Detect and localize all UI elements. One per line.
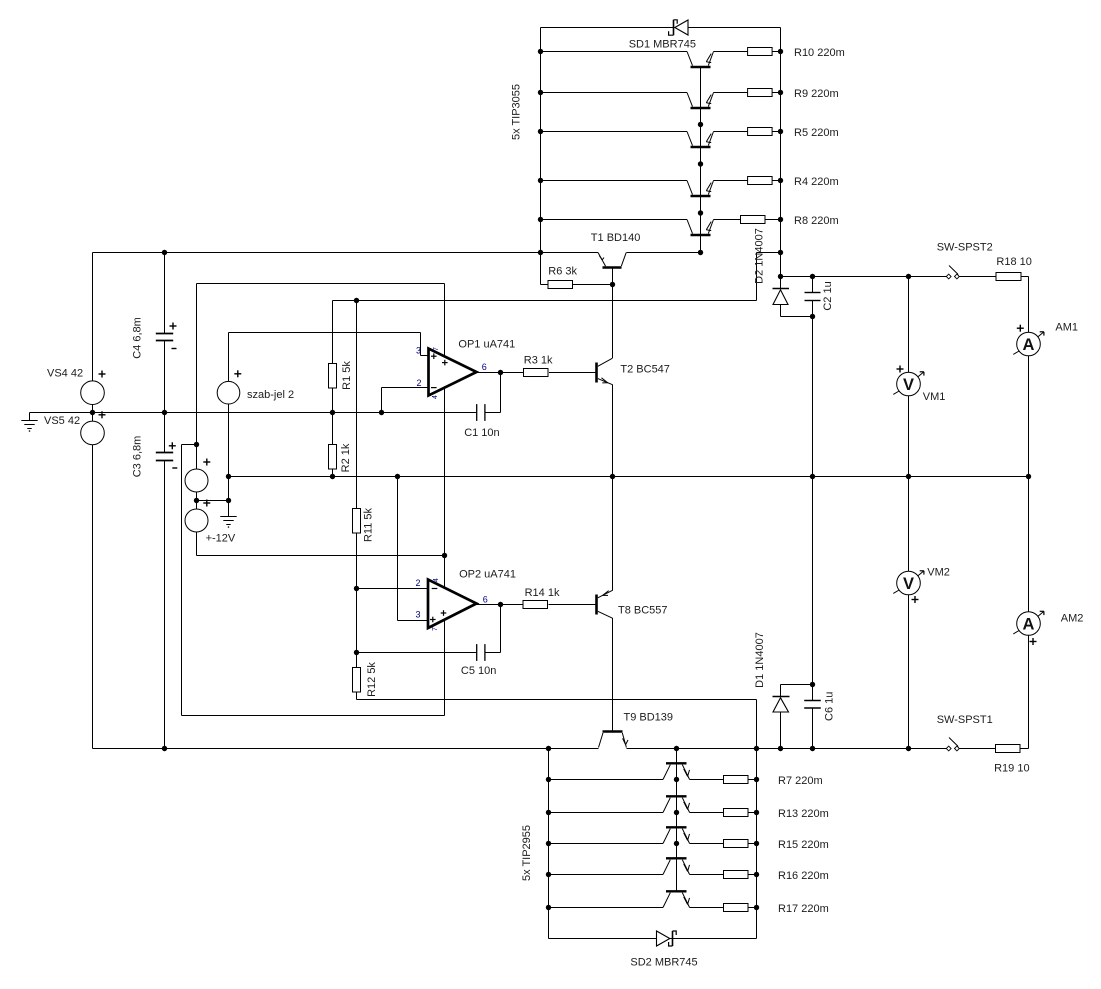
svg-text:2: 2 (415, 578, 420, 588)
junction: 2955 base chain / bottom rail (674, 746, 679, 751)
svg-text:C4 6,8m: C4 6,8m (132, 317, 144, 359)
junction: row3 right (778, 129, 783, 134)
junction: row3 left (538, 129, 543, 134)
wire: bottom rail (93, 748, 949, 750)
svg-text:V: V (903, 575, 914, 593)
junction: OP1 output (498, 370, 503, 375)
junction: 2955 base chain r1 (674, 777, 679, 782)
junction: base chain 2-3 (698, 161, 703, 166)
wire: D2 branch (781, 277, 813, 317)
voltage source szab-jel 2 (217, 370, 294, 404)
svg-text:VM2: VM2 (927, 567, 950, 579)
wire: +-12V midpoint to ground (197, 492, 229, 517)
svg-text:A: A (1023, 615, 1035, 633)
wire: OP2 pin2 wire (357, 588, 429, 590)
svg-text:C3 6,8m: C3 6,8m (132, 436, 144, 478)
svg-text:C2 1u: C2 1u (822, 281, 834, 310)
junction: row1 left (546, 777, 551, 782)
svg-text:szab-jel 2: szab-jel 2 (247, 389, 294, 401)
svg-text:4: 4 (432, 395, 439, 399)
junction: row2 left (546, 810, 551, 815)
junction: 2955 base chain r3 (674, 841, 679, 846)
wire: R1 feedback line A to D2 node (333, 253, 781, 364)
wire: R11/R12 column (356, 301, 358, 700)
transistor TIP2955 #2 (549, 796, 724, 812)
transistor TIP2955 #3 (549, 827, 724, 843)
junction: C5 tap (354, 650, 359, 655)
ground (input common) (21, 421, 37, 432)
wire: TIP3055 bank top wire with SD1 (541, 27, 781, 29)
svg-text:T2 BC547: T2 BC547 (620, 363, 670, 375)
junction: row3 left (546, 841, 551, 846)
junction: row5 left (546, 905, 551, 910)
svg-text:3: 3 (415, 610, 420, 620)
svg-text:R16 220m: R16 220m (778, 870, 829, 882)
ammeter AM2 (1013, 611, 1083, 645)
junction: C2 top (810, 274, 815, 279)
transistor TIP3055 #2 (541, 93, 748, 109)
resistor R14 1k (523, 587, 560, 609)
junction: 12V midpoint (194, 498, 199, 503)
resistor R13 220m (724, 808, 829, 820)
voltage source VS4 42 (47, 368, 106, 405)
junction: szab-jel bottom / mid rail (226, 474, 231, 479)
svg-text:AM1: AM1 (1055, 322, 1078, 334)
wire: R19 / SW-SPST1 run (959, 748, 1028, 750)
junction: +12V branch (194, 442, 199, 447)
wire: R1-R2 divider column (332, 388, 334, 477)
svg-text:5x TIP2955: 5x TIP2955 (521, 825, 533, 881)
transistor T1 BD140 (591, 232, 641, 285)
resistor R3 1k (524, 354, 554, 376)
voltage source +-12V (upper) (185, 459, 210, 493)
svg-text:C5 10n: C5 10n (461, 665, 496, 677)
svg-text:VS4 42: VS4 42 (47, 368, 83, 380)
resistor R4 220m (748, 176, 839, 188)
wire: TIP3055 bank right rail (780, 28, 782, 277)
svg-text:R3 1k: R3 1k (524, 354, 553, 366)
junction: -12V rail / pin4s (442, 553, 447, 558)
junction: R1-R2 junction (330, 410, 335, 415)
wire: left supply rail (92, 253, 94, 749)
junction: row4 right (778, 178, 783, 183)
junction: OP2 output (498, 602, 503, 607)
wire: C4/C3 column (164, 253, 166, 749)
capacitor C4 6,8m (132, 317, 177, 359)
svg-text:R1 5k: R1 5k (341, 361, 353, 390)
svg-text:R10 220m: R10 220m (794, 47, 845, 59)
voltmeter VM1 (893, 366, 945, 404)
svg-text:R11 5k: R11 5k (363, 507, 375, 542)
junction: bank left rail / +V wire (538, 250, 543, 255)
junction: row5 right (778, 217, 783, 222)
wire: TIP3055 base chain (700, 68, 702, 253)
junction: C6 bottom / bottom rail (810, 746, 815, 751)
transistor T8 BC557 (597, 590, 668, 618)
switch SW-SPST1 (937, 714, 993, 751)
resistor R9 220m (748, 88, 839, 100)
transistor TIP3055 #3 (541, 132, 748, 148)
wire: T8 collector to T9 base (612, 618, 614, 732)
resistor R18 10 (996, 256, 1032, 280)
wire: VM2 column (908, 477, 910, 749)
svg-text:SW-SPST2: SW-SPST2 (937, 242, 993, 254)
junction: VM2 bottom / bottom rail (906, 746, 911, 751)
resistor R7 220m (724, 775, 823, 787)
junction: row4 left (546, 872, 551, 877)
capacitor C3 6,8m (132, 436, 178, 478)
svg-text:C1 10n: C1 10n (464, 427, 499, 439)
svg-text:VS5 42: VS5 42 (44, 415, 80, 427)
wire: C1 integrator line (333, 373, 501, 413)
svg-text:D1 1N4007: D1 1N4007 (754, 632, 766, 688)
resistor R19 10 (994, 745, 1029, 775)
switch SW-SPST2 (937, 242, 993, 279)
svg-text:SW-SPST1: SW-SPST1 (937, 714, 993, 726)
junction: 2955 right rail / bottom rail (754, 746, 759, 751)
svg-text:R17 220m: R17 220m (778, 903, 829, 915)
junction: R6 / T1 base (610, 282, 615, 287)
junction: TIP3055 base chain / T1 collector (698, 250, 703, 255)
resistor R2 1k (329, 443, 353, 472)
svg-text:SD1 MBR745: SD1 MBR745 (629, 39, 696, 51)
wire: TIP2955 bank right rail (756, 749, 758, 939)
wire: R12 bottom line to bottom rail (357, 700, 757, 749)
label 5x TIP2955 (521, 825, 533, 881)
svg-text:C6 1u: C6 1u (824, 692, 836, 721)
svg-text:2: 2 (416, 378, 421, 388)
junction: line A / R11 (354, 298, 359, 303)
junction: VS4-VS5 junction (90, 410, 95, 415)
svg-text:R2 1k: R2 1k (340, 443, 352, 472)
wire: mid output rail (0V out) (229, 476, 1029, 478)
svg-text:T1 BD140: T1 BD140 (591, 232, 641, 244)
transistor TIP3055 #1 (541, 52, 748, 68)
junction: C4-C3 junction (162, 410, 167, 415)
junction: bank right rail / feedback jog (778, 250, 783, 255)
wire: C6 column from mid rail (781, 477, 813, 749)
transistor TIP2955 #5 (549, 891, 724, 907)
junction: R2 bottom / mid rail (330, 474, 335, 479)
junction: D2 anode node (778, 274, 783, 279)
junction: C4 top / +V wire (162, 250, 167, 255)
transistor TIP3055 #5 (541, 220, 741, 236)
wire: 0V wire from ground via VS junction to C1 (30, 413, 477, 421)
svg-text:AM2: AM2 (1061, 613, 1084, 625)
resistor R5 220m (748, 127, 839, 139)
junction: C2-C6 column / mid rail (810, 474, 815, 479)
junction: AM column / mid rail (1026, 474, 1031, 479)
resistor R16 220m (724, 870, 829, 882)
svg-text:V: V (903, 376, 914, 394)
resistor R6 3k (548, 266, 578, 289)
svg-text:+-12V: +-12V (206, 533, 236, 545)
junction: OP2 pin3 / mid rail (395, 474, 400, 479)
wire: T2 emitter to mid rail to T8 (612, 385, 614, 591)
wire: VM1 column (908, 277, 910, 477)
diode D1 1N4007 (754, 632, 790, 712)
svg-text:R19 10: R19 10 (994, 763, 1029, 775)
diode D2 1N4007 (754, 228, 790, 304)
junction: VM1 top (906, 274, 911, 279)
svg-text:R13 220m: R13 220m (778, 808, 829, 820)
junction: base chain 3-4 (698, 210, 703, 215)
transistor TIP2955 #4 (549, 858, 724, 874)
ground (12V midpoint) (220, 517, 236, 528)
junction: C3 bottom / bottom rail (162, 746, 167, 751)
transistor T2 BC547 (597, 358, 670, 385)
junction: row2 right (754, 810, 759, 815)
svg-text:4: 4 (433, 578, 440, 582)
capacitor C2 1u (805, 281, 835, 310)
junction: VM column / mid rail (906, 474, 911, 479)
resistor R17 220m (724, 903, 829, 915)
wire: OP1 output to T2 base (477, 372, 597, 374)
voltage source +-12V (lower) (185, 500, 236, 545)
junction: midpoint ground tap (226, 498, 231, 503)
svg-text:6: 6 (482, 362, 487, 372)
wire: TIP2955 bank bottom wire with SD2 (549, 938, 757, 940)
junction: C2 bottom / D2 cathode (810, 314, 815, 319)
wire: szab-jel column (228, 333, 230, 501)
junction: row5 left (538, 217, 543, 222)
wire: +12V net (top circle to OP1 pin7 and OP2 pin7) (182, 284, 445, 716)
transistor T9 BD139 (599, 712, 674, 748)
svg-text:R12 5k: R12 5k (366, 662, 378, 697)
wire: positive output line (D2 node to SW-SPST2) (813, 276, 947, 278)
voltage source VS5 42 (44, 411, 106, 444)
junction: row2 left (538, 90, 543, 95)
svg-text:A: A (1023, 336, 1035, 354)
svg-text:R5 220m: R5 220m (794, 127, 839, 139)
svg-text:T8 BC557: T8 BC557 (618, 605, 668, 617)
svg-text:6: 6 (483, 595, 488, 605)
capacitor C5 10n (461, 644, 496, 677)
svg-text:R8 220m: R8 220m (794, 215, 839, 227)
schottky diode SD2 MBR745 (630, 931, 697, 969)
wire: -12V net (bottom circle to OP1 pin4 / OP2 pin4) (197, 388, 445, 588)
label 5x TIP3055 (511, 84, 523, 140)
junction: row1 left (538, 49, 543, 54)
svg-text:R18 10: R18 10 (996, 256, 1031, 268)
capacitor C1 10n (464, 404, 499, 439)
junction: OP1 pin2 tap (379, 410, 384, 415)
wire: AM1 to mid rail (1028, 356, 1030, 477)
resistor R10 220m (748, 47, 845, 59)
junction: row4 left (538, 178, 543, 183)
svg-text:R9 220m: R9 220m (794, 88, 839, 100)
wire: TIP2955 base chain (676, 749, 678, 892)
op-amp OP2 uA741 (415, 569, 515, 632)
resistor R1 5k (329, 361, 353, 390)
resistor R12 5k (353, 662, 379, 697)
svg-text:R7 220m: R7 220m (778, 775, 823, 787)
junction: row5 right (754, 905, 759, 910)
junction: OP2 pin2 tap (354, 586, 359, 591)
svg-text:OP2 uA741: OP2 uA741 (459, 569, 516, 581)
resistor R11 5k (353, 507, 375, 542)
svg-text:3: 3 (416, 346, 421, 356)
junction: row3 right (754, 841, 759, 846)
wire: TIP3055 bank left rail (541, 28, 549, 285)
junction: row1 right (778, 49, 783, 54)
resistor R8 220m (741, 215, 839, 227)
schottky diode SD1 MBR745 (629, 20, 696, 51)
transistor TIP2955 #1 (549, 763, 724, 779)
svg-text:5x TIP3055: 5x TIP3055 (511, 84, 523, 140)
wire: OP1 pin2 net (382, 388, 429, 413)
op-amp OP1 uA741 (416, 339, 515, 399)
wire: C5 feedback line (357, 605, 501, 653)
resistor R15 220m (724, 839, 829, 851)
wire: AM2 column (1028, 477, 1030, 749)
wire: szab-jel top to OP1 pin3 (229, 333, 429, 356)
voltmeter VM2 (893, 567, 950, 604)
svg-text:SD2 MBR745: SD2 MBR745 (630, 957, 697, 969)
wire: C2 column to mid rail (812, 277, 814, 477)
wire: top horizontal from left rail to TIP3055 bank (broken at T1) (93, 252, 701, 254)
wire: R6 output side to T1 base (573, 284, 613, 286)
svg-text:T9 BD139: T9 BD139 (624, 712, 674, 724)
svg-text:D2 1N4007: D2 1N4007 (754, 228, 766, 284)
transistor TIP3055 #4 (541, 181, 748, 197)
junction: base chain 1-2 (698, 122, 703, 127)
junction: T2-T8 emitters / mid rail (610, 474, 615, 479)
svg-text:VM1: VM1 (923, 391, 946, 403)
wire: TIP2955 bank left rail (548, 749, 550, 939)
junction: row4 right (754, 872, 759, 877)
junction: 2955 left rail / bottom rail (546, 746, 551, 751)
wire: OP2 pin3 net (398, 477, 429, 621)
wire: T1 base / T2 collector (612, 268, 614, 358)
wire: OP2 output to T8 base (477, 604, 597, 606)
wire: D1 branch (780, 685, 782, 749)
svg-text:R6 3k: R6 3k (548, 266, 577, 278)
svg-text:7: 7 (433, 347, 440, 351)
wire: SW-SPST2 to R18 to AM1 (959, 277, 1028, 333)
junction: row2 right (778, 90, 783, 95)
svg-text:R15 220m: R15 220m (778, 839, 829, 851)
junction: C6 top / D1 cathode (810, 682, 815, 687)
svg-text:R14 1k: R14 1k (525, 587, 560, 599)
junction: D1 anode / bottom rail (778, 746, 783, 751)
junction: 2955 base chain r2 (674, 810, 679, 815)
svg-text:OP1 uA741: OP1 uA741 (458, 339, 515, 351)
capacitor C6 1u (804, 692, 835, 721)
svg-text:R4 220m: R4 220m (794, 176, 839, 188)
ammeter AM1 (1013, 322, 1078, 356)
svg-text:7: 7 (432, 627, 439, 631)
junction: row1 right (754, 777, 759, 782)
